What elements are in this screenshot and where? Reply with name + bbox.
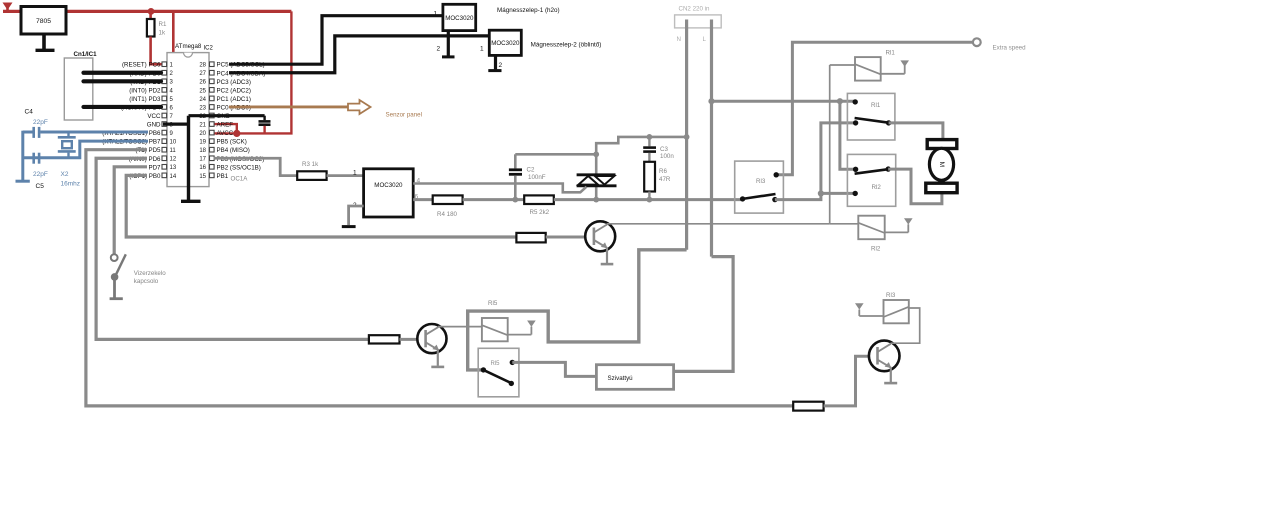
wire PC0 sensor (brown) xyxy=(229,106,348,109)
ground (U2) xyxy=(488,69,501,72)
resistor RB3 (Q4 base) xyxy=(793,402,823,411)
svg-text:PB4 (MISO): PB4 (MISO) xyxy=(217,147,250,154)
op-amp MOC3020 U3 xyxy=(353,169,421,217)
svg-text:26: 26 xyxy=(199,80,206,86)
wire N mains path to Rl5 common xyxy=(468,250,687,370)
svg-text:Szivattyú: Szivattyú xyxy=(608,375,634,382)
wire N vertical xyxy=(685,20,688,250)
resistor R5 xyxy=(524,195,554,216)
ground (Q2) xyxy=(431,366,444,369)
motor M xyxy=(926,140,957,193)
svg-text:Rl1: Rl1 xyxy=(871,102,881,109)
capacitor C4 xyxy=(33,119,48,138)
wire U2 pin2 xyxy=(494,55,497,69)
ground (U3) xyxy=(342,225,356,228)
wire Q2 collector to Rl5 coil xyxy=(438,326,482,328)
wire R1 to RESET pin1 (red) xyxy=(151,37,166,65)
svg-text:2: 2 xyxy=(499,62,503,69)
svg-text:Vizerzekelo: Vizerzekelo xyxy=(134,270,166,277)
node R6 bottom junction xyxy=(647,197,653,203)
wire PD7 pin13 to water switch xyxy=(114,167,147,255)
wire Q1 collector to relay coils xyxy=(607,223,830,225)
svg-text:100nF: 100nF xyxy=(528,174,546,181)
resistor R1 xyxy=(147,19,167,37)
wire PB3/OC2 to R3 xyxy=(214,158,298,175)
svg-text:Extra speed: Extra speed xyxy=(993,45,1027,52)
svg-text:PB2 (SS/OC1B): PB2 (SS/OC1B) xyxy=(217,164,261,171)
svg-text:47R: 47R xyxy=(659,176,671,183)
svg-text:(INT0) PD2: (INT0) PD2 xyxy=(129,87,161,94)
wire rail R5 to Rl3 xyxy=(554,198,743,201)
relay contacts Rl2 xyxy=(847,154,895,206)
svg-text:kapcsolo: kapcsolo xyxy=(134,278,159,285)
node rail junction xyxy=(818,190,824,196)
op IC2 ATmega8 body xyxy=(167,43,214,187)
ground (U1) xyxy=(442,55,455,58)
svg-text:X2: X2 xyxy=(61,171,69,178)
op-amp MOC3020 U1 (valve 1) xyxy=(434,4,476,30)
svg-text:19: 19 xyxy=(199,140,206,146)
wire XTAL2 line xyxy=(23,141,148,158)
wire Rl5 NO to pump xyxy=(512,362,596,376)
pump Szivattyu xyxy=(596,365,673,390)
svg-text:OC1A: OC1A xyxy=(231,176,249,183)
svg-text:R6: R6 xyxy=(659,168,667,175)
svg-text:R4 180: R4 180 xyxy=(437,211,458,218)
terminal Extra speed xyxy=(973,38,981,46)
svg-text:Rl3: Rl3 xyxy=(886,292,896,299)
ground (crystal, blue) xyxy=(16,180,30,183)
svg-text:AREF: AREF xyxy=(217,122,234,129)
wire U3 pin2 xyxy=(349,206,364,225)
switch S1 water sensor xyxy=(111,254,126,298)
wire junction to Rl2 NO contact xyxy=(821,192,855,195)
ground (Q1) xyxy=(601,263,614,266)
wire coil drive vertical xyxy=(829,65,831,224)
wire Q2 emitter xyxy=(437,350,439,366)
svg-text:R5 2k2: R5 2k2 xyxy=(530,209,550,216)
svg-text:10: 10 xyxy=(170,140,177,146)
svg-text:21: 21 xyxy=(199,122,206,128)
IC2 pin squares and numbers xyxy=(162,62,214,180)
resistor R6 xyxy=(644,162,671,200)
transistor Q2 xyxy=(417,324,446,353)
wire R3 to U3 pin1 xyxy=(327,174,364,177)
ground (IC2) xyxy=(181,200,201,203)
svg-text:R3 1k: R3 1k xyxy=(302,161,319,168)
svg-text:Senzor panel: Senzor panel xyxy=(386,112,422,119)
svg-text:25: 25 xyxy=(199,88,206,94)
svg-text:GND: GND xyxy=(147,122,161,129)
crystal X2 xyxy=(58,132,80,188)
svg-text:PD7: PD7 xyxy=(148,164,161,171)
connector Cn1/IC1 xyxy=(64,51,97,120)
antenna VCC (Rl5 coil) xyxy=(508,321,536,335)
node L junction xyxy=(708,98,714,104)
svg-text:C5: C5 xyxy=(36,183,45,190)
svg-text:1: 1 xyxy=(480,46,484,53)
svg-text:Mágnesszelep-2 (öblintő): Mágnesszelep-2 (öblintő) xyxy=(531,42,602,49)
relay contacts Rl3 xyxy=(735,161,784,213)
svg-text:C3: C3 xyxy=(660,146,668,153)
svg-text:AVCC: AVCC xyxy=(217,130,234,137)
wire GND pin8 branch xyxy=(163,122,189,125)
ground (water switch) xyxy=(110,297,123,300)
wire red AVCC feed (right vertical) xyxy=(213,11,291,133)
wire PD6 pin12 xyxy=(96,158,369,339)
wire pump to L xyxy=(674,257,734,372)
resistor RB2 (Q2 base) xyxy=(369,335,400,343)
transistor Q1 xyxy=(585,221,615,251)
relay contacts Rl5 xyxy=(478,348,519,397)
svg-text:14: 14 xyxy=(170,174,177,180)
node C3 top junction xyxy=(647,134,653,140)
wire red VCC drop xyxy=(162,11,173,115)
svg-text:Rl2: Rl2 xyxy=(872,184,882,191)
svg-text:24: 24 xyxy=(199,97,206,103)
wire Rl2 coil left xyxy=(830,223,859,225)
svg-text:13: 13 xyxy=(170,165,177,171)
wire red rail to R1 xyxy=(149,11,152,19)
svg-text:VCC: VCC xyxy=(147,113,161,120)
wire rail R4 to R5 xyxy=(463,198,525,201)
svg-text:Rl5: Rl5 xyxy=(491,361,501,367)
svg-text:Rl1: Rl1 xyxy=(886,50,896,57)
relay coil Rl2 xyxy=(858,216,884,253)
wire C2 top to triac xyxy=(515,153,596,156)
wire Q4 emitter xyxy=(890,367,892,382)
node C2 bottom junction xyxy=(512,197,518,203)
wire Cn1 to pin6 (PD4) xyxy=(84,105,162,109)
wire Cn1 to pin2 (RXD) xyxy=(84,71,162,75)
svg-text:12: 12 xyxy=(170,157,177,163)
wire Rl2 common to motor bottom xyxy=(888,169,942,204)
wire rail jog to relays xyxy=(775,193,821,199)
svg-text:PC3 (ADC3): PC3 (ADC3) xyxy=(217,79,251,86)
antenna VCC (Rl2 coil) xyxy=(885,218,913,232)
svg-text:MOC3020: MOC3020 xyxy=(445,15,474,22)
wire RB1 to Q1 base xyxy=(546,236,586,239)
wire Q1 emitter xyxy=(606,248,608,264)
svg-text:N: N xyxy=(677,36,681,43)
wire PD5 pin11 to bottom rail xyxy=(86,150,793,406)
svg-text:27: 27 xyxy=(199,71,206,77)
svg-text:ATmega8: ATmega8 xyxy=(175,43,202,50)
wire GND pin22 (strikes label) xyxy=(189,114,265,117)
svg-text:Mágnesszelep-1 (h2o): Mágnesszelep-1 (h2o) xyxy=(497,7,560,14)
wire Extra speed feed xyxy=(776,42,972,175)
svg-text:20: 20 xyxy=(199,131,206,137)
transistor Q4 xyxy=(869,341,900,372)
op-amp MOC3020 U2 (valve 2) xyxy=(480,30,521,55)
wire RB2 to Q2 base xyxy=(400,338,418,341)
ground (7805) xyxy=(36,34,55,50)
antenna VCC (Rl1 coil) xyxy=(881,60,909,73)
svg-text:22pF: 22pF xyxy=(33,119,48,126)
svg-text:C2: C2 xyxy=(527,167,535,174)
IC2 pin labels left xyxy=(102,62,161,180)
svg-text:PB1: PB1 xyxy=(217,173,229,180)
node triac bottom junction xyxy=(593,197,599,203)
wire GND vertical xyxy=(187,116,190,201)
relay coil Rl1 xyxy=(855,50,895,81)
connector CN2 220 in xyxy=(675,6,722,44)
wire triac T2 vertical xyxy=(595,154,598,175)
resistor R3 xyxy=(297,161,326,180)
svg-text:L: L xyxy=(703,36,707,43)
wire Rl1 coil left (thin drive) xyxy=(830,64,855,66)
svg-text:16mhz: 16mhz xyxy=(61,181,81,188)
svg-text:2: 2 xyxy=(437,46,441,53)
wire Q4 collector to Rl3 coil xyxy=(891,308,920,343)
wire XTAL1 line xyxy=(23,131,33,134)
svg-text:Rl2: Rl2 xyxy=(871,246,881,253)
wire blue bus xyxy=(21,131,24,181)
svg-text:(INT1) PD3: (INT1) PD3 xyxy=(129,96,161,103)
svg-text:MOC3020: MOC3020 xyxy=(374,182,403,189)
svg-text:Cn1/IC1: Cn1/IC1 xyxy=(74,51,98,58)
relay coil Rl5 xyxy=(482,300,508,341)
svg-text:11: 11 xyxy=(170,148,177,154)
wire RB3 to Q4 base xyxy=(824,356,869,406)
wire U3 pin4 to triac gate xyxy=(413,184,586,193)
node junction on +V rail xyxy=(148,8,155,15)
svg-text:1k: 1k xyxy=(159,30,166,37)
svg-text:(RESET) PC6: (RESET) PC6 xyxy=(122,62,161,69)
wire L to Rl1 NC contact xyxy=(712,100,856,103)
antenna VCC (Rl3 coil) xyxy=(855,303,884,316)
wire PC4 to MOC3020-2 pin1 xyxy=(229,36,489,73)
svg-text:1: 1 xyxy=(434,11,438,18)
ground (Q4) xyxy=(884,382,897,385)
svg-text:15: 15 xyxy=(199,174,206,180)
svg-text:1: 1 xyxy=(353,170,357,177)
triac TR1 xyxy=(577,175,617,186)
capacitor C3 xyxy=(643,137,674,162)
wire triac top to N line xyxy=(596,137,686,154)
svg-text:16: 16 xyxy=(199,165,206,171)
svg-text:100n: 100n xyxy=(660,153,674,160)
relay contacts Rl1 xyxy=(847,93,895,140)
svg-text:R1: R1 xyxy=(159,21,167,28)
svg-text:MOC3020: MOC3020 xyxy=(491,40,520,47)
svg-text:PC2 (ADC2): PC2 (ADC2) xyxy=(217,87,251,94)
svg-text:CN2 220 in: CN2 220 in xyxy=(679,6,711,13)
wire junction to Rl1 NO contact xyxy=(821,123,856,193)
svg-text:M: M xyxy=(938,162,945,167)
power input antenna (red) xyxy=(3,3,13,12)
IC2 pin labels right xyxy=(217,62,266,180)
wire Rl1 common to motor top xyxy=(889,123,943,140)
relay coil Rl3 xyxy=(884,292,909,323)
wire branch to Rl2 NC contact xyxy=(840,101,855,169)
node branch junction xyxy=(837,98,843,104)
svg-text:23: 23 xyxy=(199,105,206,111)
arrow sensor panel xyxy=(348,100,371,114)
svg-text:Rl3: Rl3 xyxy=(756,178,766,185)
wire L vertical xyxy=(710,20,713,257)
svg-text:C4: C4 xyxy=(25,109,34,116)
node N junction xyxy=(684,134,690,140)
wire PB0 pin14 to Q1 base xyxy=(126,175,516,237)
node triac top junction xyxy=(593,151,599,157)
resistor RB1 (Q1 base) xyxy=(516,233,545,243)
svg-text:IC2: IC2 xyxy=(204,46,214,52)
wire U3 pin6 to R4 xyxy=(413,198,433,201)
svg-text:PB5 (SCK): PB5 (SCK) xyxy=(217,139,247,146)
svg-text:28: 28 xyxy=(199,63,206,69)
wire U1 pin2 xyxy=(447,31,450,56)
wire PC5 to MOC3020-1 pin1 xyxy=(229,16,443,64)
svg-text:Rl5: Rl5 xyxy=(488,300,498,307)
svg-text:18: 18 xyxy=(199,148,206,154)
wire Cn1 to pin3 (TXD) xyxy=(84,79,162,83)
svg-text:7805: 7805 xyxy=(36,18,51,25)
svg-text:PC1 (ADC1): PC1 (ADC1) xyxy=(217,96,251,103)
svg-text:22pF: 22pF xyxy=(33,171,48,178)
wire red AREF link xyxy=(213,124,237,133)
wire red +V rail xyxy=(3,10,291,13)
capacitor C5 xyxy=(33,153,48,178)
node AVCC junction (red) xyxy=(233,130,240,137)
capacitor C1 (AVCC decoupling) xyxy=(259,116,271,134)
regulator 7805 xyxy=(21,7,66,35)
svg-text:17: 17 xyxy=(199,157,206,163)
capacitor C2 xyxy=(509,154,546,199)
resistor R4 xyxy=(433,195,463,218)
